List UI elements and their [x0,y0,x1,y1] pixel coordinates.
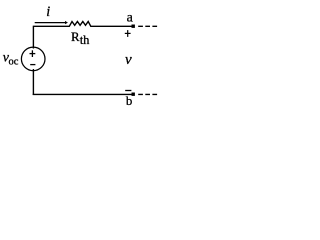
svg-text:i: i [46,4,50,20]
svg-text:R: R [71,30,80,44]
svg-text:th: th [80,33,90,47]
svg-text:b: b [126,94,132,108]
svg-text:a: a [127,11,134,26]
svg-text:oc: oc [9,56,19,67]
svg-text:v: v [125,52,132,68]
